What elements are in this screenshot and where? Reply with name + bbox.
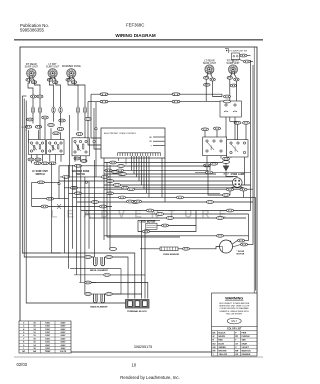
svg-text:WHITE: WHITE — [219, 336, 226, 338]
svg-text:W: W — [213, 336, 215, 338]
svg-text:ORANGE: ORANGE — [242, 353, 251, 356]
diagram border — [20, 47, 257, 352]
terminal block TB1 — [126, 300, 150, 309]
svg-text:600V: 600V — [61, 342, 66, 344]
motor feed line — [104, 235, 249, 237]
svg-text:OVEN SENSOR: OVEN SENSOR — [163, 254, 179, 256]
infinite switch S2 — [47, 140, 64, 155]
surface unit P4 left-rear — [205, 65, 214, 74]
wire run y=197.4 — [73, 196, 256, 198]
broil element feed — [52, 249, 61, 253]
svg-text:VOLTS: VOLTS — [60, 351, 67, 353]
svg-text:PINK: PINK — [242, 333, 247, 335]
oven sensor RT1 — [140, 247, 220, 249]
sub-EOC horizontal runs — [104, 162, 222, 164]
svg-text:BROIL ELEMENT: BROIL ELEMENT — [90, 270, 108, 272]
feed wire L1 — [91, 94, 222, 96]
wire run y=185.0 — [104, 184, 251, 186]
svg-text:BLUE: BLUE — [219, 343, 225, 345]
EOC pin drop wires — [131, 156, 133, 170]
connector ovals under P4 — [204, 76, 209, 79]
header rule — [14, 39, 263, 41]
svg-text:GREEN: GREEN — [219, 347, 227, 349]
wire gauge table — [19, 321, 71, 353]
svg-text:MR: MR — [235, 351, 239, 353]
svg-text:SURF UNIT: SURF UNIT — [46, 66, 60, 69]
drop to EOC node — [95, 102, 97, 128]
svg-text:GN-Y: GN-Y — [231, 320, 237, 323]
svg-text:5995386355: 5995386355 — [20, 28, 45, 33]
svg-text:GRAY: GRAY — [242, 342, 248, 345]
crossover — [57, 204, 61, 209]
broil element HE1 — [85, 256, 95, 258]
feed wire N — [88, 101, 220, 103]
svg-text:105C: 105C — [45, 335, 50, 337]
svg-text:105C: 105C — [45, 348, 50, 350]
EOC lower connector ovals — [112, 171, 119, 174]
wire run y=182.3 — [32, 181, 59, 183]
svg-text:200C: 200C — [45, 345, 50, 347]
EOC right-side drop wires — [161, 158, 163, 197]
svg-text:600V: 600V — [61, 322, 66, 324]
svg-text:TERMINAL BLOCK: TERMINAL BLOCK — [127, 310, 147, 313]
connector ovals below switch S1 — [28, 158, 34, 161]
broil relay box K3 — [227, 140, 248, 157]
svg-text:600V: 600V — [61, 332, 66, 334]
svg-text:OVEN LAMP: OVEN LAMP — [231, 173, 245, 176]
svg-text:600V: 600V — [61, 335, 66, 337]
door lock motor M1 — [183, 247, 190, 250]
svg-text:105C: 105C — [45, 332, 50, 334]
footer rule — [14, 356, 263, 358]
wires into EOC left edge — [85, 118, 92, 121]
svg-text:ELECTRONIC OVEN CONTROL: ELECTRONIC OVEN CONTROL — [104, 133, 137, 135]
bake element HE2 — [70, 269, 121, 294]
svg-text:300V: 300V — [61, 348, 66, 350]
EOC pin row — [118, 152, 161, 154]
node at EOC left — [95, 128, 97, 130]
receptacle coils left bank — [31, 107, 34, 113]
connector ovals under P1 — [26, 78, 31, 81]
wire run y=163.3 — [34, 162, 56, 164]
second level connector ovals under P1 — [31, 95, 37, 98]
element mid connectors — [85, 281, 92, 284]
bake relay box K2 — [203, 137, 227, 156]
wire run y=187.8 — [64, 187, 244, 189]
EOC right stubs — [153, 136, 165, 138]
svg-text:SURF UNIT: SURF UNIT — [203, 62, 217, 65]
svg-text:105C: 105C — [45, 326, 50, 328]
infinite switch S3 — [72, 138, 89, 156]
wire run y=206.5 — [32, 206, 112, 208]
connector ovals under P2 — [47, 78, 52, 81]
svg-text:VIOLET: VIOLET — [242, 347, 250, 349]
svg-text:YELLOW STRIPE.: YELLOW STRIPE. — [226, 313, 243, 315]
svg-text:WARNING: WARNING — [225, 296, 243, 300]
connector ovals under P3 — [66, 78, 71, 81]
infinite switch S1 — [29, 140, 46, 155]
svg-text:150C: 150C — [45, 342, 50, 344]
svg-text:02/03: 02/03 — [17, 362, 28, 367]
svg-text:BROIL: BROIL — [235, 146, 237, 151]
svg-text:10: 10 — [132, 362, 137, 367]
svg-text:LATCH: LATCH — [223, 173, 230, 176]
right lamp feed — [195, 171, 251, 173]
svg-text:NO: NO — [22, 351, 25, 353]
svg-text:N: N — [25, 130, 27, 132]
wires surface units to receptacles — [28, 79, 33, 107]
svg-text:COLOR LIST: COLOR LIST — [227, 328, 242, 331]
oven relay block K1 — [220, 101, 241, 117]
oven lamp DS1 — [233, 178, 243, 188]
svg-text:YELLOW: YELLOW — [219, 354, 228, 356]
left bus verticals down — [31, 182, 33, 206]
svg-text:MAROON: MAROON — [242, 350, 252, 353]
svg-text:600V: 600V — [61, 326, 66, 328]
connector pair above lock motor — [127, 200, 134, 203]
svg-text:PURPLE: PURPLE — [242, 336, 251, 338]
wire run y=218.0 — [89, 217, 246, 219]
svg-text:600V: 600V — [61, 345, 66, 347]
surface unit P3 warmer — [67, 69, 76, 78]
svg-text:BAKE ELEMENT: BAKE ELEMENT — [90, 306, 108, 309]
far-left supply bus — [22, 96, 61, 253]
connector ovals at K1 — [224, 95, 231, 98]
wire run y=210.5 — [81, 210, 251, 212]
svg-text:BROWN: BROWN — [219, 351, 227, 353]
wire run y=214.0 — [85, 213, 249, 215]
lamp connectors — [227, 188, 234, 191]
wire run y=174.0 — [104, 173, 216, 175]
svg-text:SURF UNIT: SURF UNIT — [25, 66, 39, 69]
svg-text:L1: L1 — [22, 127, 24, 129]
svg-text:105C: 105C — [45, 322, 50, 324]
example oval GN-Y — [227, 318, 241, 324]
svg-text:RED: RED — [219, 340, 224, 342]
wire run y=193.3 — [69, 192, 221, 194]
svg-text:WIRING DIAGRAM: WIRING DIAGRAM — [115, 33, 155, 38]
wire run y=170.4 — [104, 169, 208, 171]
svg-text:TAN: TAN — [242, 339, 247, 342]
door latch solenoid — [223, 166, 229, 171]
wire run y=165.8 — [59, 165, 104, 167]
wire run y=202.0 — [77, 201, 254, 203]
svg-text:CODES SHOWN ON DIAGRAM.: CODES SHOWN ON DIAGRAM. — [220, 307, 250, 310]
svg-text:SWITCH: SWITCH — [35, 174, 44, 176]
wires receptacles to switches — [32, 113, 34, 123]
relay wires — [225, 117, 227, 137]
svg-text:EXAMPLE: GREEN WIRE WITH: EXAMPLE: GREEN WIRE WITH — [220, 310, 250, 313]
wire run y=198.7 — [32, 198, 69, 200]
color list table — [212, 326, 258, 328]
svg-text:Rendered by LeadVenture, Inc.: Rendered by LeadVenture, Inc. — [120, 375, 179, 380]
wire run y=181.0 — [59, 180, 240, 182]
svg-text:WARMER ZONE: WARMER ZONE — [62, 65, 81, 68]
surface unit P1 right-rear — [27, 69, 36, 78]
svg-text:600V: 600V — [61, 338, 66, 340]
svg-text:BLACK: BLACK — [219, 332, 227, 335]
svg-text:* TO SURF UNIT SW: * TO SURF UNIT SW — [228, 50, 247, 52]
svg-text:600V: 600V — [61, 329, 66, 331]
center drop wires — [103, 158, 105, 240]
connector ovals under P5 — [227, 76, 232, 79]
svg-text:105C: 105C — [45, 329, 50, 331]
lock motor M2 — [138, 219, 160, 221]
svg-text:150C: 150C — [45, 338, 50, 340]
surface unit P5 right-front — [229, 65, 238, 74]
surface unit P2 left-front — [48, 69, 57, 78]
svg-text:BAKE: BAKE — [210, 144, 213, 150]
svg-text:FEF368C: FEF368C — [126, 22, 144, 27]
electronic oven control U1 — [101, 128, 165, 158]
wire run y=176.9 — [60, 176, 233, 178]
svg-text:TEMP: TEMP — [45, 351, 51, 353]
connector ovals above switches — [25, 125, 32, 128]
svg-text:MOTOR: MOTOR — [237, 254, 245, 256]
svg-text:308255175: 308255175 — [134, 345, 152, 349]
warning box — [212, 293, 258, 356]
wire run y=189.2 — [104, 188, 253, 190]
left column verticals — [31, 155, 33, 164]
relay outputs down — [206, 156, 208, 164]
right edge verticals — [250, 60, 252, 211]
wires P4 P5 down — [206, 75, 208, 77]
